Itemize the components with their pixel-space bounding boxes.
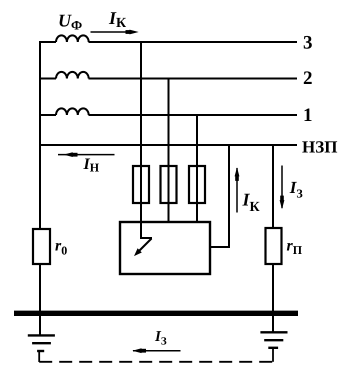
svg-text:НЗП: НЗП bbox=[302, 138, 337, 157]
wire: from НЗП to resistor r_П bbox=[272, 145, 274, 228]
arrow I_Н (pointing left) bbox=[58, 152, 115, 157]
wire: neutral line НЗП bbox=[40, 144, 297, 146]
inductor coil, phase 2 bbox=[56, 72, 89, 79]
arrow I_К (top, pointing right) bbox=[91, 30, 139, 35]
wire: from НЗП down and into right side of device box bbox=[210, 145, 229, 247]
breakdown (insulation fault) symbol inside box bbox=[134, 222, 152, 256]
wire: phase line 1 bbox=[40, 114, 297, 116]
fuse F1 bbox=[133, 166, 149, 203]
ground symbol (left) bbox=[28, 335, 55, 351]
wire: drop from phase 3 through fuse F1 bbox=[140, 42, 142, 222]
breakdown device box (machine frame) bbox=[120, 222, 210, 274]
wire: phase line 2 bbox=[40, 78, 297, 80]
svg-text:2: 2 bbox=[303, 68, 313, 89]
arrow I_З (right, pointing down) bbox=[280, 166, 285, 210]
resistor r_0 bbox=[33, 229, 50, 264]
arrow I_К (middle, pointing up) bbox=[235, 167, 240, 212]
wire: left vertical bus (lower, to earth) bbox=[39, 264, 41, 336]
svg-text:3: 3 bbox=[303, 33, 313, 54]
wire: drop from phase 1 through fuse F3 bbox=[196, 115, 198, 222]
resistor r_П bbox=[266, 228, 282, 264]
ground symbol (right) bbox=[260, 332, 287, 348]
fuse F3 bbox=[189, 166, 205, 203]
fuse F2 bbox=[161, 166, 177, 203]
arrow I_З (bottom, pointing left) bbox=[132, 348, 180, 353]
earth bus bar bbox=[14, 311, 298, 316]
inductor coil, phase 3 bbox=[56, 35, 89, 42]
svg-text:1: 1 bbox=[303, 105, 313, 126]
wire: drop from phase 2 through fuse F2 bbox=[168, 79, 170, 223]
inductor coil, phase 1 bbox=[56, 108, 89, 115]
wire: left vertical bus (upper) bbox=[39, 41, 41, 229]
wire: r_П to earth bbox=[272, 264, 274, 333]
wire: phase line 3 bbox=[39, 41, 297, 43]
dashed earth-return path bbox=[39, 349, 273, 363]
